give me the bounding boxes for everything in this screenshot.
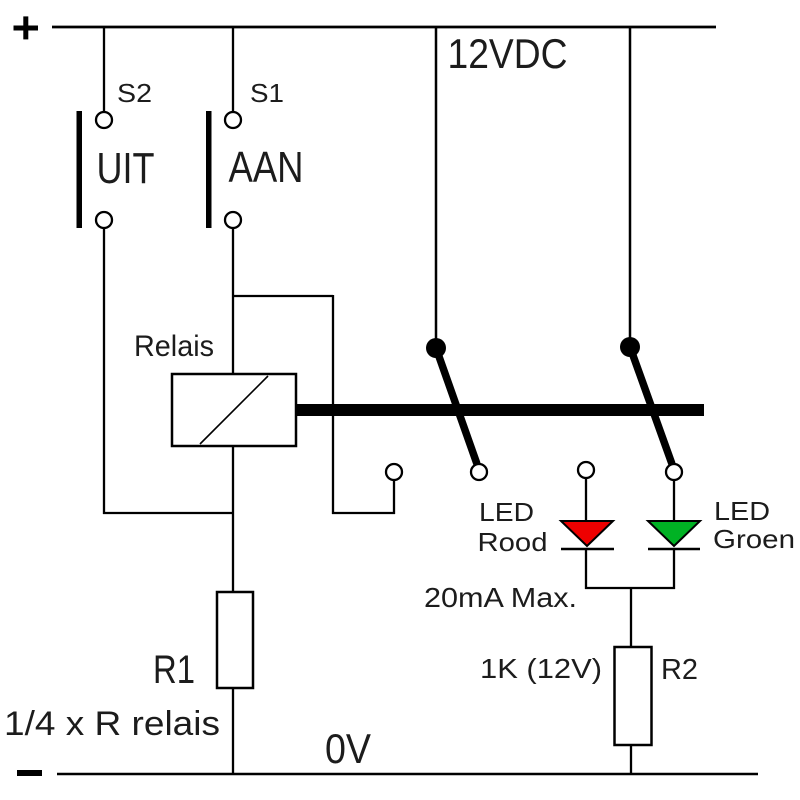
node: NC terminal circle (386, 464, 402, 480)
wire: join to R2 (630, 588, 632, 648)
svg-text:AAN: AAN (229, 143, 304, 192)
resistor R1 (217, 592, 253, 688)
wire: LED cathode join (585, 587, 675, 589)
svg-text:1K (12V): 1K (12V) (480, 653, 602, 684)
wire: top rail to contact K1a (435, 27, 438, 342)
wire: top rail to S1 (232, 27, 234, 113)
LED D2 green (648, 521, 700, 549)
wire: top rail to contact K1b (629, 27, 632, 341)
wire: S1 bottom to relay coil (232, 227, 234, 375)
wire: S2 branch to R1 node (103, 512, 233, 514)
relay actuator bar (296, 404, 704, 416)
wire: red LED cathode down (585, 549, 587, 589)
wire: terminal to red LED (585, 478, 587, 521)
switch S2 (pushbutton UIT) (77, 111, 113, 228)
svg-text:UIT: UIT (97, 144, 155, 193)
relay contact K1a (426, 338, 487, 480)
wire: to NC terminal (332, 512, 395, 514)
wire: branch right at y296 (232, 295, 333, 297)
wire: terminal to green LED (673, 480, 675, 521)
svg-text:1/4 x R relais: 1/4 x R relais (4, 705, 220, 743)
svg-text:20mA Max.: 20mA Max. (424, 582, 577, 613)
wire: R1 bottom to 0V rail (232, 688, 234, 774)
minus terminal symbol (17, 770, 42, 776)
wire: up to NC terminal circle (393, 480, 395, 514)
svg-text:Rood: Rood (478, 527, 548, 557)
LED D1 red (561, 521, 614, 549)
svg-text:LED: LED (479, 497, 534, 527)
svg-text:S2: S2 (117, 78, 152, 108)
relay coil K1 (172, 374, 296, 446)
resistor R2 (615, 647, 652, 745)
svg-text:Relais: Relais (134, 330, 214, 363)
wire: +12V top rail (52, 26, 716, 29)
svg-text:LED: LED (714, 496, 770, 526)
plus terminal symbol (14, 16, 39, 39)
wire: 0V bottom rail (57, 773, 758, 776)
svg-text:12VDC: 12VDC (448, 30, 568, 77)
svg-text:R1: R1 (153, 648, 195, 692)
svg-text:Groen: Groen (713, 524, 795, 554)
wire: R2 bottom to 0V rail (630, 745, 632, 774)
wire: down right of relay (332, 295, 334, 514)
wire: S2 bottom down (103, 227, 105, 514)
relay contact K1b (620, 337, 682, 480)
wire: top rail to S2 (103, 27, 105, 113)
wire: green LED cathode down (673, 549, 675, 589)
svg-text:R2: R2 (661, 654, 698, 686)
switch S1 (pushbutton AAN) (206, 111, 241, 228)
node: red LED terminal circle (578, 462, 594, 478)
svg-text:0V: 0V (325, 725, 371, 772)
svg-text:S1: S1 (250, 78, 284, 108)
wire: relay coil bottom to R1 (232, 446, 234, 593)
